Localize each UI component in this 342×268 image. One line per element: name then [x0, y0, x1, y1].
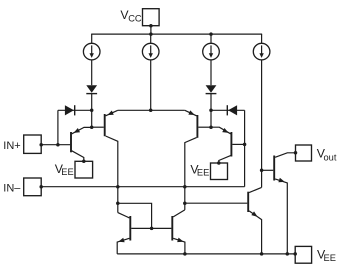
- transistor Q5: [185, 110, 198, 186]
- transistor Q7: [262, 153, 296, 254]
- node rail Q4: [183, 252, 187, 256]
- wire rail to I1: [91, 34, 93, 43]
- node IN- Q2 collector: [116, 185, 120, 189]
- transistor Q8: [248, 187, 261, 254]
- wire VEE rail: [117, 253, 295, 255]
- svg-text:EE: EE: [324, 253, 336, 263]
- wire mirror tap to base drop: [118, 203, 152, 228]
- transistor Q6: [211, 127, 245, 163]
- svg-text:EE: EE: [197, 167, 209, 177]
- svg-text:CC: CC: [128, 13, 142, 23]
- wire I3 to D3: [210, 60, 212, 85]
- node rail-I3: [209, 32, 213, 36]
- diode D4: [227, 105, 237, 115]
- current source I1: [83, 43, 100, 60]
- node I2 emitters: [149, 109, 153, 113]
- wire IN- net: [41, 186, 244, 188]
- node IN- Q5 collector: [183, 185, 187, 189]
- wire rail to I3: [210, 34, 212, 43]
- terminal VCC: [120, 8, 159, 28]
- wire IN+ riser: [57, 110, 59, 144]
- wire D4 anode: [211, 109, 245, 111]
- node A: [90, 109, 94, 113]
- node B: [90, 125, 94, 129]
- wire I2 to Q5 emitter: [151, 109, 185, 111]
- terminal VEE-1: [55, 160, 93, 178]
- svg-text:out: out: [324, 152, 337, 162]
- terminal VEE-2: [190, 161, 227, 179]
- wire IN+ to Q1 base: [41, 144, 70, 146]
- node rail Q8: [260, 252, 264, 256]
- wire Q5 collector to Q4: [184, 187, 186, 210]
- wire VCC to rail: [150, 26, 152, 34]
- terminal IN+: [3, 135, 43, 153]
- wire I4 drop: [261, 60, 263, 188]
- wire D1 to node A: [91, 94, 93, 111]
- wire Q5 base: [198, 126, 211, 128]
- node C: [209, 109, 213, 113]
- transistor Q2: [105, 110, 118, 186]
- terminal IN-: [3, 178, 43, 196]
- node mirror left tap: [116, 202, 120, 206]
- transistor Q4: [152, 210, 185, 254]
- wire I1 to D1: [91, 60, 93, 85]
- diode D2: [65, 105, 75, 115]
- svg-text:IN+: IN+: [3, 140, 20, 152]
- node Q6 base junction: [243, 143, 247, 147]
- node mirror right tap: [183, 201, 187, 205]
- node mirror bases: [150, 227, 154, 231]
- wire rail to I4: [261, 34, 263, 43]
- node rail-I2: [149, 32, 153, 36]
- current source I3: [203, 43, 220, 60]
- terminal Vout: [294, 145, 337, 162]
- wire D3 to node C: [210, 94, 212, 111]
- wire D2 anode: [58, 109, 92, 111]
- svg-text:EE: EE: [61, 167, 73, 177]
- current source I4: [253, 43, 270, 60]
- diode D1: [86, 85, 97, 93]
- wire node A to node B: [91, 110, 93, 127]
- wire I2 drop: [150, 60, 152, 111]
- wire rail to I2: [150, 34, 152, 43]
- wire node B to Q2 base: [92, 126, 104, 128]
- node Q7 base junction: [260, 169, 264, 173]
- wire Q2 emitter to I2: [118, 109, 151, 111]
- diode D3: [206, 85, 217, 93]
- current source I2: [142, 43, 159, 60]
- transistor Q1: [71, 127, 92, 161]
- node IN+ riser junction: [56, 143, 60, 147]
- transistor Q3: [117, 213, 151, 254]
- wire node C to node D: [210, 110, 212, 127]
- node D: [209, 125, 213, 129]
- wire IN- riser: [244, 110, 246, 186]
- node rail Q7: [286, 252, 290, 256]
- wire Q2 collector to mirror: [117, 187, 119, 213]
- wire VCC rail: [91, 33, 262, 35]
- terminal VEE-3: [293, 246, 335, 263]
- wire Q8 base: [185, 202, 248, 204]
- svg-text:IN–: IN–: [3, 182, 21, 194]
